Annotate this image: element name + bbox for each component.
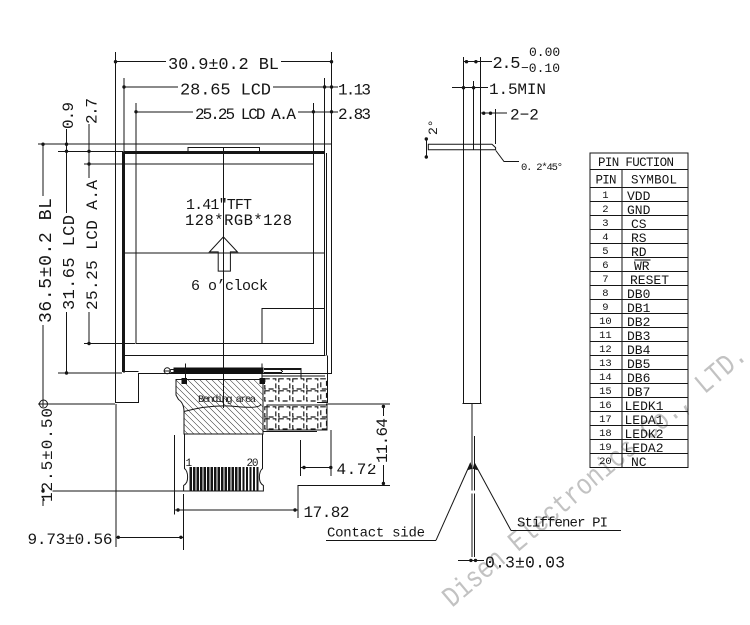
svg-text:9: 9 — [602, 302, 608, 314]
svg-text:12: 12 — [599, 344, 612, 356]
svg-text:0. 2*45°: 0. 2*45° — [521, 162, 563, 174]
svg-text:2: 2 — [602, 204, 608, 216]
svg-text:LEDA2: LEDA2 — [625, 441, 664, 456]
svg-text:0.00: 0.00 — [529, 45, 560, 60]
svg-text:19: 19 — [599, 442, 612, 454]
svg-text:20: 20 — [599, 456, 612, 468]
svg-text:CS: CS — [631, 217, 647, 232]
svg-text:28.65 LCD: 28.65 LCD — [180, 82, 271, 101]
svg-text:14: 14 — [599, 372, 612, 384]
svg-text:8: 8 — [602, 288, 608, 300]
svg-text:PIN: PIN — [596, 174, 617, 188]
svg-text:1.5MIN: 1.5MIN — [489, 81, 546, 99]
svg-text:DB5: DB5 — [627, 357, 650, 372]
svg-text:2−2: 2−2 — [510, 107, 539, 125]
svg-text:LEDK1: LEDK1 — [625, 399, 664, 414]
svg-text:16: 16 — [599, 400, 612, 412]
svg-text:25.25 LCD A.A: 25.25 LCD A.A — [84, 180, 102, 310]
svg-text:LEDK2: LEDK2 — [625, 427, 664, 442]
svg-text:11.64: 11.64 — [374, 418, 392, 463]
svg-text:DB3: DB3 — [627, 329, 650, 344]
svg-text:Stiffener PI: Stiffener PI — [517, 516, 608, 532]
svg-text:DB4: DB4 — [627, 343, 651, 358]
svg-text:DB7: DB7 — [627, 385, 650, 400]
svg-text:4: 4 — [602, 232, 608, 244]
svg-text:DB1: DB1 — [627, 301, 651, 316]
svg-text:12.5±0.50: 12.5±0.50 — [39, 408, 57, 502]
svg-text:13: 13 — [599, 358, 612, 370]
svg-text:18: 18 — [599, 428, 612, 440]
svg-text:1.13: 1.13 — [338, 82, 371, 100]
svg-text:4.72: 4.72 — [337, 461, 377, 479]
svg-text:−0.10: −0.10 — [521, 61, 560, 76]
svg-text:9.73±0.56: 9.73±0.56 — [28, 531, 113, 549]
svg-text:VDD: VDD — [627, 189, 651, 204]
svg-text:Contact side: Contact side — [327, 526, 425, 542]
svg-text:3: 3 — [602, 218, 608, 230]
svg-text:0.3±0.03: 0.3±0.03 — [485, 554, 565, 573]
svg-text:RD: RD — [631, 245, 647, 260]
svg-text:25.25 LCD A.A: 25.25 LCD A.A — [195, 106, 296, 124]
svg-text:RESET: RESET — [630, 273, 669, 288]
svg-text:5: 5 — [602, 246, 608, 258]
svg-text:2.83: 2.83 — [338, 106, 371, 124]
svg-text:RS: RS — [631, 231, 647, 246]
svg-text:17: 17 — [599, 414, 612, 426]
svg-text:GND: GND — [627, 203, 651, 218]
svg-text:6 o’clock: 6 o’clock — [191, 278, 268, 295]
svg-text:11: 11 — [599, 330, 612, 342]
svg-text:6: 6 — [602, 260, 608, 272]
svg-text:1: 1 — [602, 190, 608, 202]
svg-text:10: 10 — [599, 316, 612, 328]
svg-text:31.65 LCD: 31.65 LCD — [61, 215, 80, 310]
svg-text:DB2: DB2 — [627, 315, 650, 330]
svg-text:2°: 2° — [426, 119, 441, 135]
svg-text:15: 15 — [599, 386, 612, 398]
svg-text:WR: WR — [634, 259, 650, 274]
svg-text:2.5: 2.5 — [493, 55, 521, 74]
svg-text:PIN FUCTION: PIN FUCTION — [598, 156, 674, 170]
svg-text:NC: NC — [631, 455, 647, 470]
svg-text:20: 20 — [247, 458, 259, 470]
svg-text:36.5±0.2 BL: 36.5±0.2 BL — [37, 198, 57, 323]
svg-text:LEDA1: LEDA1 — [625, 413, 664, 428]
svg-text:128*RGB*128: 128*RGB*128 — [185, 212, 292, 230]
svg-text:7: 7 — [602, 274, 608, 286]
svg-text:1: 1 — [186, 458, 193, 470]
svg-text:DB0: DB0 — [627, 287, 650, 302]
svg-text:0.9: 0.9 — [60, 102, 78, 129]
svg-text:2.7: 2.7 — [84, 98, 102, 124]
svg-text:SYMBOL: SYMBOL — [631, 174, 677, 188]
svg-text:17.82: 17.82 — [304, 504, 350, 522]
svg-text:Bending area: Bending area — [198, 394, 256, 406]
svg-text:30.9±0.2 BL: 30.9±0.2 BL — [168, 56, 279, 75]
svg-text:DB6: DB6 — [627, 371, 650, 386]
